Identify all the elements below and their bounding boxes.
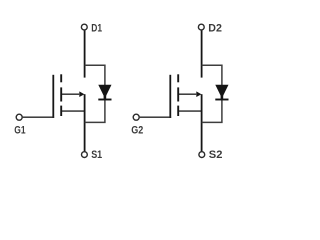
transistor Q1 bbox=[14, 23, 111, 161]
terminal node S1 bbox=[82, 152, 88, 158]
wire drain vertical Q2 bbox=[201, 30, 203, 77]
channel segment middle Q2 bbox=[177, 87, 179, 101]
svg-text:S2: S2 bbox=[209, 149, 223, 161]
channel segment bottom Q2 bbox=[177, 106, 179, 116]
channel segment middle Q1 bbox=[60, 87, 62, 101]
transistor Q2 bbox=[131, 23, 228, 161]
wire source-channel Q2 bbox=[179, 110, 202, 112]
body arrow Q2 bbox=[179, 91, 201, 97]
terminal node D1 bbox=[81, 24, 87, 30]
terminal node S2 bbox=[199, 152, 205, 158]
channel segment bottom Q1 bbox=[60, 106, 62, 116]
body arrow Q1 bbox=[62, 91, 84, 97]
gate bar Q1 bbox=[52, 75, 54, 118]
terminal node G2 bbox=[133, 114, 139, 120]
wire gate lead Q1 bbox=[23, 116, 54, 118]
terminal node G1 bbox=[16, 114, 22, 120]
body diode D of Q1 bbox=[98, 85, 111, 100]
wire gate lead Q2 bbox=[140, 116, 171, 118]
svg-text:G1: G1 bbox=[14, 125, 25, 137]
gate bar Q2 bbox=[169, 75, 171, 118]
wire source-channel Q1 bbox=[62, 110, 85, 112]
wire diode branch Q1 bbox=[85, 65, 105, 122]
body diode D of Q2 bbox=[215, 85, 228, 100]
wire diode branch Q2 bbox=[202, 65, 222, 122]
svg-text:G2: G2 bbox=[131, 125, 143, 137]
wire source vertical Q2 bbox=[201, 94, 203, 152]
wire drain vertical Q1 bbox=[84, 30, 86, 77]
channel segment top Q2 bbox=[177, 74, 179, 82]
wire source vertical Q1 bbox=[84, 94, 86, 152]
svg-text:S1: S1 bbox=[91, 149, 102, 161]
terminal node D2 bbox=[198, 24, 204, 30]
svg-text:D1: D1 bbox=[91, 23, 102, 35]
channel segment top Q1 bbox=[60, 74, 62, 82]
svg-text:D2: D2 bbox=[208, 23, 222, 35]
